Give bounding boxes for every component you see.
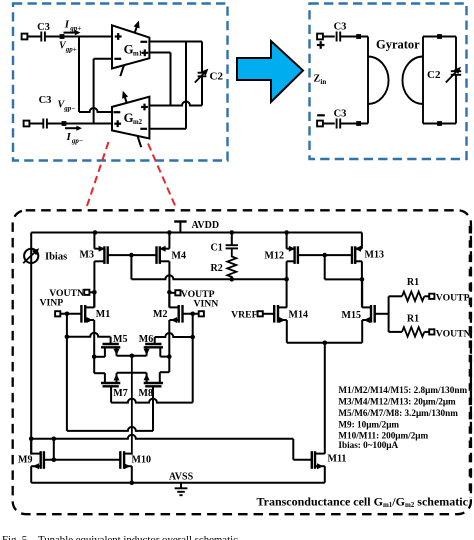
junction M12 drain	[284, 277, 289, 282]
svg-text:M9: M9	[18, 455, 32, 466]
wire tail down (hops buses)	[131, 356, 133, 455]
svg-text:M11: M11	[328, 454, 347, 465]
wire VREF to M14 gate	[263, 313, 274, 315]
capacitor C3 (gyrator bottom)	[336, 119, 338, 129]
wire M7 source (arrow)	[116, 373, 118, 383]
svg-text:M3/M4/M12/M13: 20μm/2μm: M3/M4/M12/M13: 20μm/2μm	[338, 397, 456, 407]
wire rail to Ibias	[30, 233, 32, 250]
junction Ibias bus	[29, 437, 34, 442]
wire Vgp- up to Gm1 - input	[93, 59, 95, 124]
wire M13 diode connection	[324, 255, 326, 279]
junction M2 source node	[167, 354, 172, 359]
transistor M12	[293, 246, 295, 264]
op-amp Gm2 - input mark	[114, 111, 121, 113]
svg-text:M5/M6/M7/M8: 3.2μm/130nm: M5/M6/M7/M8: 3.2μm/130nm	[338, 408, 458, 418]
svg-text:M8: M8	[139, 388, 153, 399]
wire rail to M13 source	[361, 233, 363, 249]
op-amp Gm2 + output mark	[141, 106, 148, 108]
svg-text:Fig. 5.: Fig. 5.	[2, 534, 30, 540]
wire VOUTP terminal	[169, 292, 175, 294]
junction tail right pair	[323, 341, 328, 346]
wire node to gyrator bar bottom	[359, 123, 368, 125]
node square C2 top	[437, 34, 442, 39]
op-amp Gm2 + input mark	[114, 123, 121, 125]
svg-text:VINN: VINN	[194, 299, 219, 310]
svg-text:M12: M12	[265, 250, 284, 261]
wire M6 gate riser	[154, 337, 156, 344]
op-amp Gm2 body	[112, 97, 149, 139]
node square C2 bottom	[437, 121, 442, 126]
svg-text:AVDD: AVDD	[192, 220, 220, 231]
svg-text:C1: C1	[211, 243, 223, 254]
wire input to C3 bottom	[29, 123, 43, 125]
gyrator left arc	[368, 57, 389, 105]
arrow Igp- current direction	[65, 127, 79, 129]
svg-text:M4: M4	[172, 250, 186, 261]
transistor M6	[145, 343, 161, 345]
wire M5 drain	[104, 347, 106, 357]
wire bus to M11 gate	[292, 439, 294, 460]
wire to C3 gy top	[323, 36, 335, 38]
wire M15 source down	[361, 320, 363, 343]
wire M3 gate to mirror node	[108, 254, 132, 256]
wire to Gm2 - input (hop over Vgp- riser)	[79, 108, 112, 112]
wire R1 top to terminal	[424, 295, 429, 297]
terminal VINN	[199, 311, 204, 316]
transistor M14	[277, 305, 279, 323]
svg-text:M15: M15	[342, 310, 361, 321]
wire M13 gate to node	[325, 254, 352, 256]
wire C3 to node Vgp+	[45, 36, 62, 38]
wire M15 gate to outputs	[375, 313, 389, 315]
wire M5 gate riser	[110, 337, 112, 344]
transistor M5	[103, 343, 119, 345]
wire Gm2 + output to C2 bottom (hop)	[149, 102, 202, 106]
wire R1 bottom to terminal	[424, 331, 429, 333]
wire M6 drain	[159, 347, 161, 356]
svg-text:M2: M2	[153, 309, 167, 320]
wire M11 drain up	[324, 343, 326, 454]
arrow C2 tuning	[195, 72, 205, 83]
svg-text:M10: M10	[132, 455, 151, 466]
wire M15 drain up	[361, 279, 363, 307]
svg-text:M5: M5	[113, 334, 127, 345]
wire output splitter	[388, 296, 390, 332]
wire Vgp+ down to Gm2 - input	[78, 37, 80, 113]
terminal Zin -	[317, 121, 323, 127]
arrow C2 gyrator tuning	[446, 71, 458, 83]
wire M1 source down	[93, 320, 95, 357]
capacitor C3 (gyrator top)	[336, 32, 338, 42]
op-amp Gm2 tuning arrow	[124, 96, 141, 147]
block-diagram box (Gm cells)	[13, 4, 228, 161]
op-amp Gm1 body	[112, 25, 149, 68]
wire tail M14/M15	[287, 342, 362, 344]
arrow Igp+ current direction	[64, 32, 78, 34]
C2 element right bar with capacitor	[455, 37, 457, 72]
transconductance cell box right edge	[469, 226, 472, 498]
node Vgp+ square	[60, 34, 65, 39]
resistor R1 top	[402, 292, 424, 301]
wire input to C3 top	[27, 36, 41, 38]
svg-text:Tunable equivalent inductor ov: Tunable equivalent inductor overall sche…	[38, 534, 241, 540]
wire Gm2 - output	[149, 128, 186, 130]
svg-text:AVSS: AVSS	[169, 472, 194, 483]
wire VINN to M2 gate	[183, 313, 199, 315]
svg-text:C3: C3	[39, 95, 52, 106]
capacitor C3 (top left)	[40, 32, 42, 42]
mirror gate bus (hop over tail)	[31, 435, 293, 439]
wire M9 drain up	[30, 439, 32, 454]
transistor M8	[144, 382, 163, 384]
wire rail to M12 source	[284, 230, 289, 235]
transconductance cell box	[13, 210, 471, 514]
svg-text:M13: M13	[365, 250, 384, 261]
gyrator right arc	[402, 57, 423, 105]
transistor M15	[370, 305, 372, 323]
AVSS rail	[31, 482, 325, 484]
wire M5/M6 sources bus	[117, 355, 147, 357]
wire mirror gates down	[130, 255, 132, 279]
junction VINN bus	[190, 335, 195, 340]
svg-text:R1: R1	[407, 277, 419, 288]
svg-text:M6: M6	[139, 334, 153, 345]
AVDD symbol	[179, 222, 181, 233]
wire VOUTN terminal	[89, 291, 94, 293]
svg-text:VOUTN: VOUTN	[436, 328, 471, 339]
wire Gm1 - output to C2 top	[149, 41, 202, 43]
transistor M10	[123, 451, 125, 469]
svg-text:in: in	[320, 78, 326, 86]
svg-text:C2: C2	[427, 69, 441, 81]
wire VINP to M1 gate	[60, 313, 81, 315]
junction R2 bottom	[230, 277, 235, 282]
wire M12 drain down to M14	[286, 261, 288, 307]
svg-text:C3: C3	[334, 109, 347, 120]
transistor M4	[159, 246, 161, 264]
transistor M1	[84, 305, 86, 323]
junction M12/M13 gates	[322, 253, 327, 258]
svg-text:I: I	[66, 131, 72, 143]
wire M4 gate to mirror node	[131, 254, 156, 256]
wire C3 to node gy top	[340, 36, 358, 38]
wire node to gyrator bar top	[359, 36, 368, 38]
svg-text:Ibias: Ibias	[45, 252, 67, 263]
transistor M13	[354, 246, 356, 264]
current source Ibias	[24, 249, 38, 263]
junction VINP bus	[65, 335, 70, 340]
wire M1 drain up	[93, 292, 95, 307]
transistor M9	[40, 451, 42, 469]
zoom line right (red)	[148, 144, 177, 210]
svg-text:M1/M2/M14/M15: 2.8μm/130nm: M1/M2/M14/M15: 2.8μm/130nm	[338, 385, 467, 395]
terminal Igp- input	[24, 121, 30, 127]
junction M9 gate bus	[52, 437, 57, 442]
wire M11 source to AVSS	[324, 466, 326, 483]
wire node to Gm1 + input	[62, 36, 112, 38]
junction M10 source	[130, 480, 135, 485]
minus mark Zin	[317, 114, 325, 116]
wire M13 drain down to M15	[361, 261, 363, 307]
junction VOUTN	[92, 290, 97, 295]
wire M10 source to AVSS	[131, 466, 133, 483]
svg-text:M9: 10μm/2μm: M9: 10μm/2μm	[338, 419, 399, 429]
block arrow (equivalence)	[237, 41, 303, 102]
wire M8 source (arrow)	[146, 373, 148, 383]
svg-text:VOUTP: VOUTP	[436, 293, 470, 304]
terminal VREF	[258, 311, 263, 316]
capacitor C1	[231, 233, 233, 246]
wire M2 source down	[168, 320, 170, 357]
svg-text:gp+: gp+	[65, 46, 77, 54]
transistor M11	[314, 451, 316, 469]
op-amp Gm1 tuning arrow	[120, 25, 137, 76]
resistor R2	[227, 248, 236, 279]
wire M8 drain	[168, 357, 170, 373]
wire C3 to node Vgp-	[47, 123, 64, 125]
wire output node down (Gm1-/Gm2-)	[185, 42, 187, 129]
svg-text:Gyrator: Gyrator	[376, 38, 420, 52]
junction VINP	[65, 312, 70, 317]
svg-text:Transconductance cell Gm1/Gm2: Transconductance cell Gm1/Gm2 schematic	[257, 494, 469, 509]
wire M6 gate to VINN riser (hop over M2 source)	[155, 333, 193, 337]
capacitor C3 (bottom left)	[42, 119, 44, 129]
svg-text:M7: M7	[113, 388, 127, 399]
svg-text:gp−: gp−	[63, 105, 75, 113]
wire M9 source to AVSS	[30, 466, 32, 483]
wire M4 drain down to VOUTP	[168, 261, 170, 307]
svg-text:C3: C3	[334, 22, 347, 33]
C2 element left bar	[422, 37, 424, 124]
terminal VINP	[55, 311, 60, 316]
wire M9/M10 gate link	[53, 439, 55, 460]
wire M6 source (arrow)	[146, 347, 148, 356]
wire rail to M3 source	[93, 230, 98, 235]
terminal VOUTP internal	[175, 290, 180, 295]
wire M5 source (arrow)	[116, 347, 118, 356]
svg-text:C3: C3	[37, 22, 50, 33]
op-amp Gm1 - input mark	[114, 58, 121, 60]
wire VINP to M5 gate (hop over M1 source)	[67, 333, 111, 337]
gyrator box	[310, 4, 467, 160]
svg-text:m1: m1	[133, 50, 143, 57]
wire VINN lower run (hops) to M7 gate	[111, 399, 193, 403]
svg-text:C2: C2	[210, 71, 224, 83]
junction VOUTP	[167, 290, 172, 295]
wire gates to M12 drain (hop over VOUTP line)	[131, 275, 286, 279]
wire rail to M4 source	[167, 230, 172, 235]
AVDD rail	[31, 232, 362, 234]
terminal VOUTN output	[429, 329, 434, 334]
plus mark Zin	[317, 44, 325, 46]
transistor M7	[101, 382, 120, 384]
junction VINN	[190, 312, 195, 317]
svg-text:M1: M1	[96, 309, 110, 320]
wire to C3 gy bottom	[323, 123, 335, 125]
wire Ibias down to mirror bus	[30, 263, 32, 455]
wire M8 gate riser	[152, 386, 154, 431]
C2 element bottom wire	[423, 123, 456, 125]
wire C3 to node gy bottom	[340, 123, 358, 125]
svg-text:M14: M14	[289, 310, 308, 321]
zoom line left (red)	[86, 142, 109, 210]
terminal Igp+ input	[22, 34, 28, 40]
C2 element top wire	[423, 36, 456, 38]
transistor M3	[103, 246, 105, 264]
wire VINP down	[66, 314, 68, 431]
wire to R1 bottom	[389, 331, 402, 333]
op-amp Gm1 + output mark	[141, 52, 148, 54]
node Vgp- square	[62, 121, 67, 126]
wire M12 gate to node	[298, 254, 325, 256]
op-amp Gm1 - output mark	[140, 41, 147, 43]
op-amp Gm1 + input mark	[115, 35, 122, 37]
wire M7/M8 sources bus	[117, 372, 147, 374]
svg-text:gp−: gp−	[71, 137, 83, 145]
junction M3/M4 gates	[129, 253, 134, 258]
svg-text:VREF: VREF	[231, 309, 257, 320]
wire to Gm1 - input	[94, 58, 112, 60]
ground symbol	[180, 483, 182, 489]
wire node to Gm2 + input	[64, 123, 112, 125]
svg-text:R2: R2	[211, 263, 223, 274]
svg-text:m2: m2	[133, 119, 143, 126]
wire VINN down	[192, 314, 194, 403]
transistor M2	[177, 305, 179, 323]
wire to R1 top	[389, 295, 402, 297]
svg-text:M3: M3	[80, 250, 94, 261]
wire M2 drain up	[168, 293, 170, 308]
wire M3 drain down to VOUTN	[93, 261, 95, 307]
junction M1 source node	[92, 355, 97, 360]
wire VINP lower run (hop) to M8 gate	[67, 427, 153, 431]
svg-text:M10/M11: 200μm/2μm: M10/M11: 200μm/2μm	[338, 431, 428, 441]
terminal VOUTP output	[429, 294, 434, 299]
terminal Zin +	[317, 34, 323, 40]
svg-text:VINP: VINP	[40, 298, 64, 309]
terminal VOUTN internal	[84, 290, 89, 295]
wire M7 drain	[93, 357, 95, 373]
capacitor C2 (block diagram)	[198, 72, 207, 74]
resistor R1 bottom	[402, 327, 424, 336]
node square gy bottom-left	[356, 121, 361, 126]
op-amp Gm2 - output mark	[140, 128, 147, 130]
svg-text:I: I	[64, 19, 70, 31]
wire M10 drain up to tail	[131, 453, 133, 456]
wire M14 source down	[286, 320, 288, 343]
junction tail upper	[130, 354, 135, 359]
wire Gm1 + output	[149, 52, 170, 54]
wire M7 gate riser	[110, 386, 112, 402]
svg-text:R1: R1	[407, 314, 419, 325]
node square gy top-left	[356, 34, 361, 39]
gyrator left bar	[367, 37, 369, 124]
svg-text:Ibias: 0~100μA: Ibias: 0~100μA	[338, 440, 398, 450]
